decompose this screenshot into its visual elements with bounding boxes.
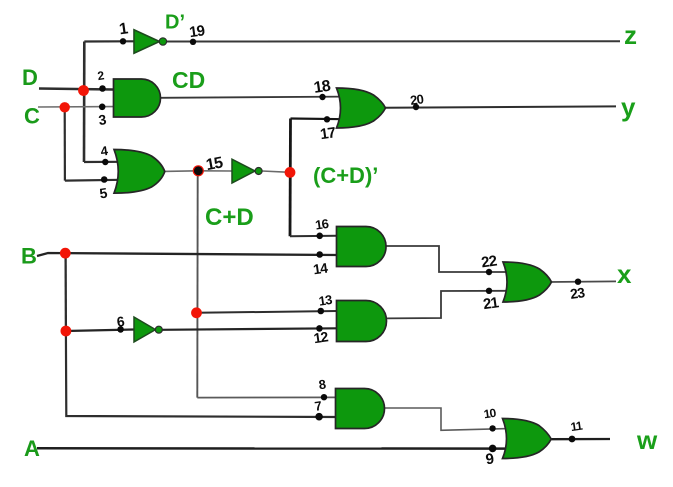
wire (C+D)' vertical [289,119,292,237]
wire B input horizontal [37,253,337,256]
wire inverter U1 input [84,40,134,42]
wire B-vertical to inverter U3 [66,330,134,332]
pin 11 dot [569,436,576,443]
node (C+D)' (red) [285,167,296,178]
svg-text:D: D [22,65,38,90]
or-gate U11 (w) [503,419,552,459]
node junction B lower (red) [61,326,72,337]
wire to AND2 pin16 [290,235,337,237]
svg-text:13: 13 [318,292,333,309]
wire A input to OR4 pin9 [37,447,508,450]
pin 20 dot [413,104,419,110]
or-gate U5 (C+D) [114,150,165,194]
pin 19 dot [190,39,196,45]
svg-text:16: 16 [314,216,329,233]
wire C-vertical to OR1 pin5 [65,179,121,182]
wire node to AND3 pin13 [197,311,338,313]
wire B vertical branch [64,253,67,331]
svg-text:y: y [621,92,636,122]
pin 13 dot [318,308,325,315]
svg-text:x: x [617,259,632,289]
wire D input horizontal [39,89,113,90]
svg-text:18: 18 [313,78,332,97]
wire C input horizontal [38,106,114,108]
wire AND4 output to OR4 pin10 [385,408,508,430]
node junction C (red) [59,102,69,112]
node junction D (red) [78,85,89,96]
or-gate U6 (y) [337,88,386,128]
pin 2 dot [99,85,106,92]
wire AND2 output to OR3 pin22 [386,246,512,272]
pin 23 dot [575,279,581,285]
pin 3 dot [99,104,106,111]
svg-text:CD: CD [172,67,205,93]
pin 12 dot [316,325,323,332]
svg-text:17: 17 [319,124,337,143]
svg-text:21: 21 [482,294,500,313]
wire C vertical branch [64,107,66,180]
inverter U3 (B') [134,317,162,342]
and-gate U7 (pins 16,14) [337,227,387,267]
wire to OR2 pin17 [291,117,345,120]
svg-text:C: C [24,104,40,129]
svg-text:B: B [21,244,37,269]
wire w output net [551,438,610,441]
or-gate U9 (x) [503,262,552,302]
pin 22 dot [486,269,492,275]
pin 18 dot [319,94,325,100]
pin 1 dot [120,38,126,44]
pin 16 dot [316,233,323,240]
pin 21 dot [486,288,492,294]
node junction B upper (red) [60,248,71,259]
svg-text:(C+D)’: (C+D)’ [313,163,378,188]
pin 8 dot [321,394,327,400]
and-gate U8 (pins 13,12) [337,301,387,342]
wire inverter U2 output to node (C+D)' [262,171,290,172]
pin 17 dot [324,116,330,122]
svg-text:20: 20 [409,91,424,108]
pin 14 dot [316,251,323,258]
svg-text:D’: D’ [165,12,185,34]
wire node15 to inverter U2 [198,170,232,172]
and-gate U4 (CD) [114,79,161,117]
pin 4 dot [102,159,108,165]
pin 5 dot [101,176,108,183]
wire OR1 output to node 15 [163,170,198,173]
node C+D branch (red) [191,307,202,318]
wire D vertical branch [83,42,86,163]
pin 9 dot [489,445,497,453]
pin 6 dot [117,326,124,333]
svg-text:z: z [624,20,637,50]
svg-text:19: 19 [188,22,206,41]
wire C+D vertical to AND4 pin8 [197,396,336,398]
svg-text:C+D: C+D [205,204,254,231]
inverter U1 (D') [134,30,167,53]
wire AND3 output to OR3 pin21 [386,291,512,319]
wire inverter U3 output to AND3 pin12 [161,328,337,330]
wire D-vertical to OR1 pin4 [84,161,121,163]
wire x output net [549,280,616,283]
node 15 (black with red ring) [193,165,204,176]
and-gate U10 (pins 8,7) [336,389,385,429]
wire CD output to pin18 [160,97,343,98]
inverter U2 ((C+D)') [232,159,262,183]
svg-text:w: w [636,425,658,455]
wire C+D vertical from node 15 [196,171,198,398]
svg-text:A: A [24,436,40,461]
pin 10 dot [489,425,495,431]
wire B vertical lower to pin7 [66,331,336,417]
svg-text:22: 22 [480,253,498,272]
pin 7 dot [315,413,323,421]
wire y output net [385,106,616,107]
wire z output net [166,40,620,42]
